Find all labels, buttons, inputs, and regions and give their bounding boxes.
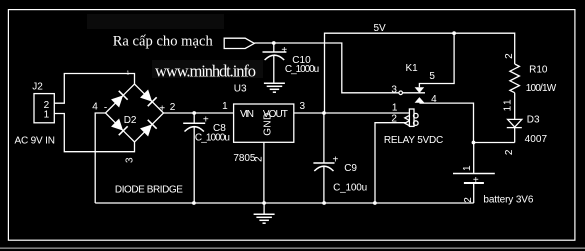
svg-text:GND: GND [263,113,274,136]
svg-text:+: + [159,104,165,115]
svg-text:AC 9V IN: AC 9V IN [15,136,56,147]
diode bridge D2 frame [106,84,164,142]
svg-text:C_100u: C_100u [333,182,367,193]
svg-text:R10: R10 [529,64,548,75]
svg-text:4007: 4007 [525,134,548,145]
connector J2 [34,94,54,123]
svg-text:3: 3 [391,84,397,95]
svg-text:+: + [203,115,209,126]
output flag symbol [224,38,254,48]
svg-text:battery 3V6: battery 3V6 [483,194,533,205]
svg-text:100/1W: 100/1W [526,83,557,94]
svg-text:D2: D2 [124,115,137,126]
wire U3 GND to rail [263,142,265,203]
junction node 5V rail / pin5 [452,31,456,35]
svg-text:4: 4 [431,94,437,105]
junction node rail relay pin2 [373,201,377,205]
diode D2-a upper-left [111,91,128,108]
svg-text:3: 3 [124,157,135,163]
svg-text:2: 2 [170,102,176,113]
svg-text:5V: 5V [374,23,387,34]
diode D3 leads [514,93,516,143]
junction node C9/5V [322,111,326,115]
capacitor C8 leads [193,113,195,203]
relay K1 coil body [405,109,418,126]
svg-text:2: 2 [463,197,474,203]
watermark box top [87,14,224,29]
diode D2-d lower-right [140,120,157,137]
svg-text:RELAY 5VDC: RELAY 5VDC [384,135,443,146]
wire J2 pin2 to bridge top [54,74,134,104]
svg-text:+: + [473,175,479,186]
svg-text:D3: D3 [527,114,540,125]
resistor R10 zigzag [510,64,520,93]
capacitor C10 leads [273,43,275,83]
svg-text:2: 2 [504,53,515,59]
junction node rail U3 gnd [262,201,266,205]
svg-text:1: 1 [462,165,473,171]
svg-text:4: 4 [92,101,98,112]
diode D2-c lower-left [111,118,128,135]
svg-text:1: 1 [222,101,228,112]
battery BT plates [453,174,495,184]
capacitor C10 plates [263,52,287,60]
wire battery node to D3 [474,142,515,144]
svg-text:2: 2 [391,113,397,124]
svg-text:2: 2 [504,149,515,155]
svg-text:U3: U3 [234,84,247,95]
wire J2 pin1 to bridge bottom [54,114,134,152]
capacitor C8 plates [183,123,205,131]
wire 5V riser and rail [325,33,515,113]
svg-text:11: 11 [502,99,513,111]
junction node rail C8 [192,201,196,205]
svg-text:+: + [333,154,339,165]
svg-text:C9: C9 [344,163,357,174]
diode D2-b upper-right [140,89,157,106]
svg-text:VIN: VIN [240,109,254,120]
junction node rail C9 [322,201,326,205]
diode D3 symbol [507,119,522,127]
wire VOUT to relay coil pin1 [294,112,410,114]
capacitor C9 plates [313,163,334,171]
wire bridge plus to VIN [164,112,234,114]
wire relay pin4 to battery node [419,103,473,142]
junction node C8/main [192,111,196,115]
wire relay pin2 to rail [375,123,406,203]
relay K1 pole contact circle [399,91,403,95]
svg-text:1: 1 [392,103,398,114]
ground at rail [254,203,275,223]
svg-text:2: 2 [253,156,264,162]
watermark box mid [152,60,263,78]
ground below C10 [264,83,285,92]
junction node C10 [272,41,276,45]
svg-text:+: + [281,45,287,56]
svg-text:1: 1 [127,70,130,76]
svg-text:C_1000u: C_1000u [195,132,230,143]
output flag wire to relay pole [254,43,399,93]
svg-text:5: 5 [429,71,435,82]
wire bridge minus to ground rail [95,113,105,203]
svg-text:www.minhdt.info: www.minhdt.info [155,62,256,81]
voltage regulator U3 box [234,104,294,142]
svg-text:C_1000u: C_1000u [285,64,319,75]
relay K1 contact 5 arrow [415,87,425,93]
svg-text:Ra cấp cho mạch: Ra cấp cho mạch [113,34,214,50]
svg-text:J2: J2 [32,81,43,92]
svg-text:3: 3 [300,101,306,112]
svg-text:K1: K1 [406,63,419,74]
wire relay pole stub [402,92,425,94]
bottom gray strip [0,247,585,249]
wire relay pin5 to 5V [419,33,454,87]
svg-text:1: 1 [44,110,50,121]
junction node battery/D3/pin4 [472,141,476,145]
relay K1 contact 4 arrow [415,97,425,103]
svg-text:DIODE BRIDGE: DIODE BRIDGE [115,184,183,195]
svg-text:-: - [104,102,107,113]
battery leads [473,143,475,204]
capacitor C9 leads [323,113,325,203]
wire ground rail [95,202,474,204]
